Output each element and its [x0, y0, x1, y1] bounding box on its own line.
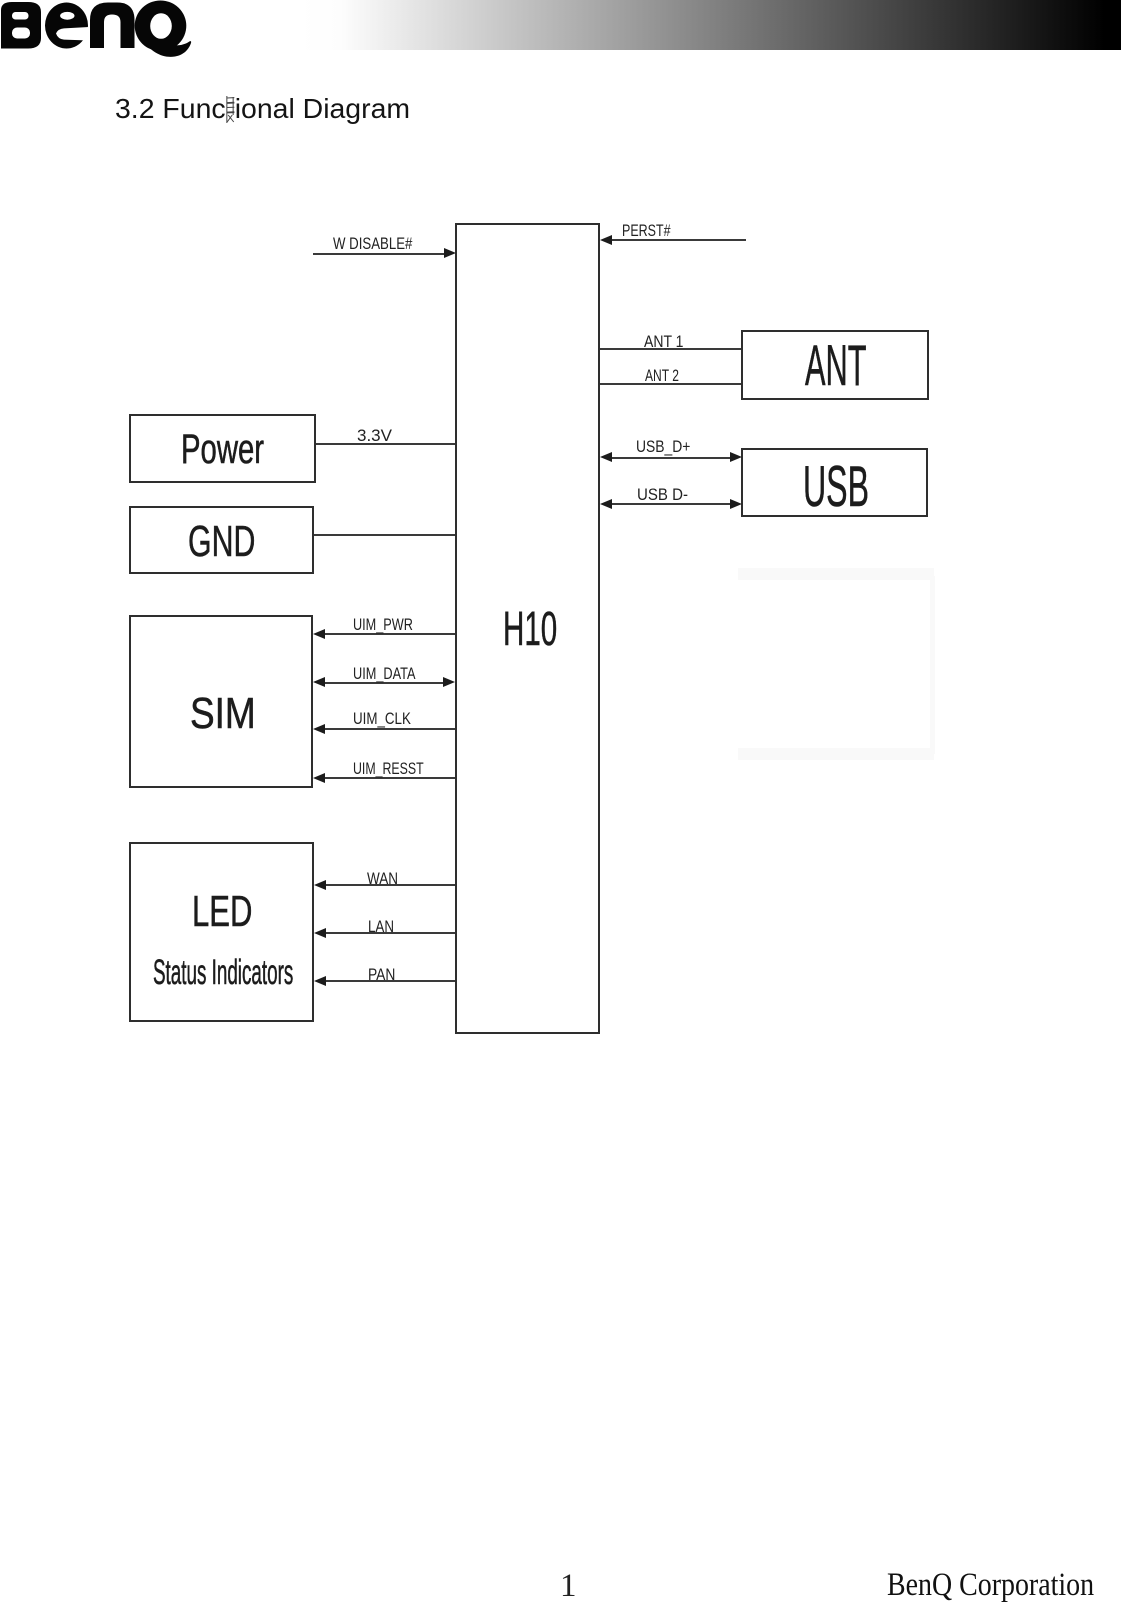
logo letter e	[45, 3, 89, 49]
label 3.3V	[357, 428, 392, 445]
arrowhead into USB left	[730, 452, 742, 462]
wire 3.3V	[316, 443, 455, 445]
wire UIM_CLK	[324, 728, 455, 730]
wire USB_D+	[611, 457, 731, 459]
label ANT	[805, 338, 867, 396]
wire PAN	[325, 980, 455, 982]
label LED	[192, 891, 252, 935]
arrowhead into SIM right	[313, 629, 325, 639]
ghost scan artifacts	[738, 568, 934, 580]
block LED Status Indicators	[129, 842, 314, 1022]
label UIM_RESST	[353, 761, 424, 778]
wire ANT 1	[600, 348, 741, 350]
label WAN	[367, 871, 398, 888]
label USB_D+	[636, 439, 690, 456]
wire UIM_RESST	[324, 777, 455, 779]
arrowhead into LED right	[314, 880, 326, 890]
block Power	[129, 414, 316, 483]
page number 1	[560, 1568, 577, 1605]
wire USB D-	[611, 503, 731, 505]
header gradient bar	[300, 0, 1121, 50]
heading 3.2 Functional Diagram	[115, 95, 410, 124]
arrowhead into H10 right	[600, 499, 612, 509]
block GND	[129, 506, 314, 574]
label PERST#	[622, 223, 671, 240]
wire UIM_DATA	[324, 682, 444, 684]
arrowhead into H10 left	[443, 677, 455, 687]
label LAN	[368, 919, 394, 936]
BenQ logo	[0, 0, 200, 62]
wire W DISABLE#	[313, 253, 445, 255]
label Status Indicators	[153, 955, 293, 990]
wire GND to H10	[314, 534, 455, 536]
block ANT	[741, 330, 929, 400]
arrowhead into SIM right	[313, 773, 325, 783]
arrowhead into H10 right	[600, 452, 612, 462]
wire UIM_PWR	[324, 633, 455, 635]
arrowhead into SIM right	[313, 724, 325, 734]
arrowhead into H10 left	[444, 248, 456, 258]
label PAN	[368, 967, 395, 984]
arrowhead into LED right	[314, 976, 326, 986]
block USB	[741, 448, 928, 517]
block H10	[455, 223, 600, 1034]
label SIM	[190, 693, 256, 737]
logo letter Q with tail	[135, 1, 191, 57]
label USB D-	[637, 487, 688, 504]
arrowhead into H10 right	[600, 235, 612, 245]
logo letter n	[90, 3, 135, 49]
wire PERST#	[612, 239, 746, 241]
label UIM_CLK	[353, 711, 411, 728]
logo letter B	[1, 2, 41, 49]
label UIM_DATA	[353, 666, 416, 683]
label Power	[181, 428, 264, 470]
label USB	[803, 459, 869, 517]
label GND	[188, 521, 255, 565]
wire WAN	[325, 884, 455, 886]
wire LAN	[325, 932, 455, 934]
arrowhead into USB left	[730, 499, 742, 509]
label UIM_PWR	[353, 617, 413, 634]
block SIM	[129, 615, 313, 788]
arrowhead into LED right	[314, 928, 326, 938]
label H10	[503, 605, 557, 653]
label ANT 1	[644, 334, 683, 351]
label W DISABLE#	[333, 236, 412, 253]
wire ANT 2	[600, 383, 741, 385]
label ANT 2	[645, 368, 679, 385]
footer BenQ Corporation	[887, 1567, 1094, 1604]
arrowhead into SIM right	[313, 677, 325, 687]
